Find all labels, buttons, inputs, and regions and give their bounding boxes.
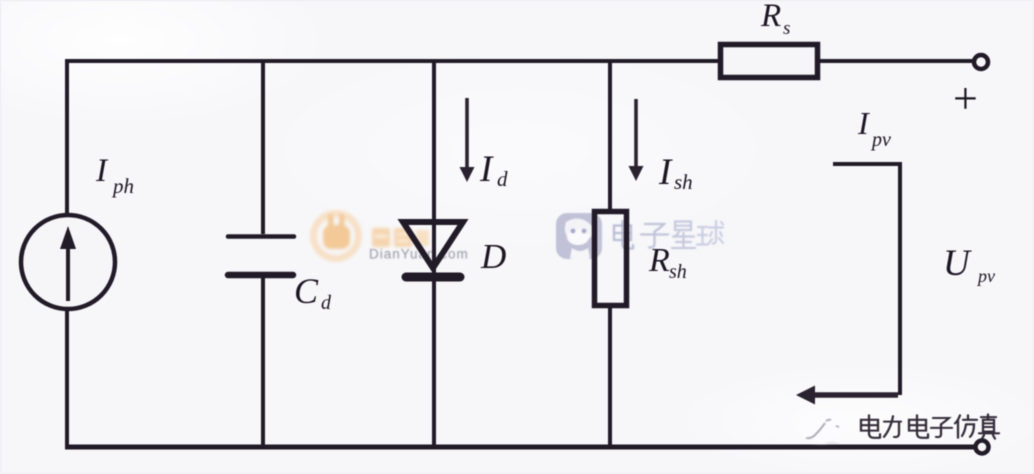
svg-text:d: d bbox=[497, 167, 508, 191]
svg-text:pv: pv bbox=[870, 129, 891, 151]
svg-text:I: I bbox=[479, 149, 494, 190]
svg-text:+: + bbox=[953, 74, 978, 123]
svg-text:R: R bbox=[648, 242, 670, 279]
svg-text:I: I bbox=[658, 152, 673, 193]
svg-text:sh: sh bbox=[674, 170, 693, 194]
svg-text:sh: sh bbox=[669, 261, 687, 283]
svg-text:U: U bbox=[943, 243, 972, 284]
svg-text:ph: ph bbox=[111, 174, 134, 198]
svg-text:C: C bbox=[294, 271, 319, 311]
svg-text:s: s bbox=[783, 18, 790, 39]
svg-text:D: D bbox=[480, 237, 506, 276]
svg-text:d: d bbox=[321, 292, 332, 314]
svg-text:pv: pv bbox=[976, 266, 995, 286]
svg-text:R: R bbox=[760, 0, 781, 34]
svg-text:I: I bbox=[857, 105, 870, 141]
svg-text:I: I bbox=[95, 153, 109, 189]
